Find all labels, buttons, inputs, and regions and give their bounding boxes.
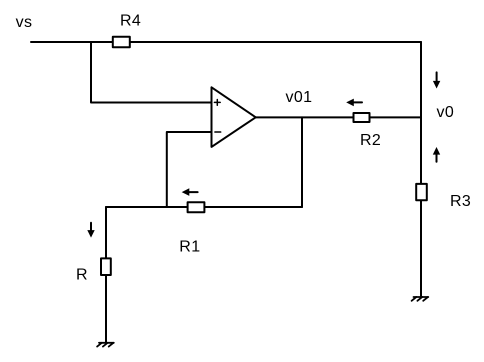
wire branch from vs line down to op-amp + input — [91, 42, 212, 103]
wire right vertical v0 branch down to ground — [420, 42, 422, 297]
svg-text:R4: R4 — [120, 13, 141, 30]
wire vs input to top-right corner — [31, 41, 421, 43]
svg-text:vs: vs — [16, 14, 33, 31]
current arrow through R3 pointing up — [433, 147, 440, 162]
wire feedback vertical up to output — [301, 117, 303, 207]
wire op-amp - input to feedback node — [167, 132, 212, 207]
resistor R4 — [113, 37, 130, 47]
svg-text:R1: R1 — [179, 239, 200, 256]
ground (left, below R) — [97, 343, 114, 347]
wire feedback horizontal (R branch to output branch) — [106, 206, 302, 208]
svg-text:v0: v0 — [437, 104, 455, 121]
ground (right, below R3) — [412, 297, 429, 301]
resistor R — [101, 258, 111, 275]
resistor R1 — [188, 202, 205, 212]
wire op-amp output to v0 node — [256, 116, 421, 118]
current arrow at v0 pointing down — [433, 72, 440, 88]
current arrow through R1 (pointing left) — [182, 188, 198, 196]
current arrow into R2 (pointing left) — [346, 99, 362, 107]
wire left branch down through R to ground — [105, 207, 107, 343]
svg-text:R3: R3 — [450, 193, 471, 210]
current arrow through R pointing down — [87, 223, 94, 238]
resistor R2 — [354, 113, 370, 122]
resistor R3 — [416, 184, 427, 200]
svg-text:R: R — [76, 267, 88, 284]
svg-text:R2: R2 — [360, 132, 381, 149]
svg-text:v01: v01 — [286, 89, 313, 106]
op-amp U1 — [212, 87, 256, 147]
